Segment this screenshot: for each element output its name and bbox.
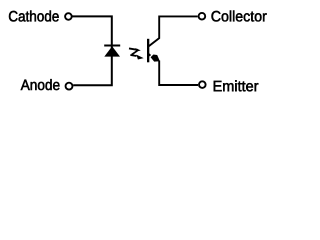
LED D1: triangle (apex up toward cathode bar) bbox=[104, 46, 120, 56]
label Anode bbox=[21, 79, 60, 90]
light arrow 2 (lower): back stroke bbox=[132, 51, 138, 55]
Q1 emitter arrowhead blob (NPN arrow) bbox=[151, 55, 160, 62]
light arrow 2 (lower): shaft bbox=[130, 55, 136, 56]
terminal circle: Cathode bbox=[65, 13, 72, 20]
label Emitter bbox=[214, 80, 258, 91]
Q1 collector diagonal + wire to terminal bbox=[149, 16, 198, 46]
terminal circle: Anode bbox=[66, 83, 73, 90]
label Cathode bbox=[9, 11, 59, 22]
light arrow 1 (upper): shaft bbox=[129, 48, 138, 50]
terminal circle: Collector bbox=[199, 13, 206, 20]
Q1 emitter tail from base bar bbox=[149, 54, 151, 56]
label Collector bbox=[212, 11, 267, 22]
phototransistor Q1: base bar bbox=[147, 39, 149, 63]
wire: cathode terminal, right vertical of LED loop, anode wire bbox=[72, 16, 111, 85]
terminal circle: Emitter bbox=[199, 81, 206, 88]
wire: emitter to terminal bbox=[159, 61, 198, 86]
LED D1: cathode bar bbox=[104, 45, 120, 47]
light arrow 2 (lower): head bbox=[136, 55, 143, 60]
light arrow 1 (upper): head bbox=[135, 48, 141, 52]
